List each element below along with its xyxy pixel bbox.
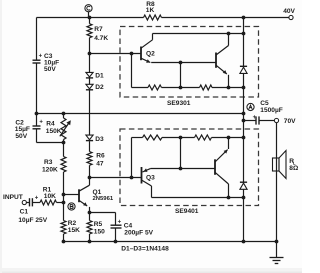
- wire Q2 emitter to output base: [151, 62, 216, 64]
- svg-text:2N5961: 2N5961: [93, 196, 114, 202]
- resistor R6: [87, 141, 92, 177]
- wire internal: [162, 87, 200, 89]
- svg-text:Q3: Q3: [146, 175, 155, 182]
- svg-text:150: 150: [94, 229, 105, 236]
- label Q2: [146, 50, 155, 57]
- label SE9401: [175, 208, 199, 215]
- terminal 40V: [283, 8, 295, 20]
- wire emitter to C4: [90, 212, 116, 214]
- node Q3 base divider: [130, 176, 134, 180]
- node divider mid 9401: [179, 136, 183, 140]
- wire D2 to D3: [89, 90, 91, 135]
- speaker RL: [273, 151, 299, 179]
- transistor Q3: [142, 167, 152, 198]
- svg-text:10µF 25V: 10µF 25V: [18, 217, 47, 224]
- svg-text:+: +: [35, 196, 39, 202]
- svg-text:120K: 120K: [42, 166, 58, 173]
- wire rail to SE9401: [243, 121, 245, 138]
- transistor U1 output: [216, 34, 229, 88]
- resistor R1: [40, 187, 64, 206]
- wire top internal: [153, 33, 244, 35]
- resistor R3: [42, 143, 66, 195]
- wire C2 to mid rail: [37, 129, 64, 143]
- label SE9301: [167, 100, 191, 107]
- svg-text:R7: R7: [94, 26, 103, 33]
- node rail output top: [242, 86, 246, 90]
- resistor internal top-1: [148, 85, 162, 90]
- node rail bottom: [242, 240, 246, 244]
- wire Q2 base: [90, 53, 142, 55]
- node C: [85, 5, 92, 18]
- node A: [247, 103, 254, 110]
- terminal 70V: [274, 118, 296, 125]
- node divider mid bottom: [179, 86, 183, 90]
- block SE9401 box: [120, 129, 259, 206]
- svg-text:SE9301: SE9301: [167, 100, 191, 107]
- node R4 top: [62, 112, 66, 116]
- diode catch bottom: [240, 138, 247, 198]
- wire internal to rail: [212, 87, 244, 89]
- node Q1 collector: [88, 176, 92, 180]
- svg-text:1500µF: 1500µF: [260, 107, 283, 114]
- svg-text:Q2: Q2: [146, 50, 155, 57]
- wire divider rise: [131, 138, 133, 178]
- labels R6: [96, 153, 105, 168]
- svg-text:D1: D1: [95, 72, 104, 79]
- wire Q1 collector to Q3 base: [90, 177, 142, 179]
- node divider mid drop 9401: [179, 167, 183, 171]
- resistor R2: [61, 203, 80, 242]
- wire top supply rail: [37, 17, 290, 19]
- node C5 junction: [242, 119, 246, 123]
- wire feedback: [37, 113, 244, 115]
- resistor R8: [144, 1, 162, 20]
- svg-text:C1: C1: [20, 208, 29, 215]
- wire internal 9401 to rail: [212, 137, 244, 139]
- diode catch top: [240, 33, 247, 88]
- node Q2 base divider: [130, 52, 134, 56]
- node divider mid top: [179, 61, 183, 65]
- svg-text:R4: R4: [46, 120, 55, 127]
- svg-text:1K: 1K: [146, 7, 155, 14]
- transistor Q1: [79, 178, 114, 213]
- node rail 9401 bottom: [242, 196, 246, 200]
- resistor internal bot-1: [143, 135, 163, 140]
- transistor Q2: [141, 40, 153, 63]
- node R5 bottom: [88, 240, 92, 244]
- capacitor C3: [33, 53, 60, 114]
- wire left rail upper: [36, 18, 38, 61]
- node C4 bottom: [114, 240, 118, 244]
- terminal input: [22, 200, 26, 204]
- wire bottom internal left: [132, 87, 149, 89]
- wire Q3 top arm to output base: [151, 168, 215, 170]
- wire divider drop: [131, 54, 133, 88]
- svg-text:INPUT: INPUT: [3, 194, 23, 201]
- node output collector top: [227, 32, 231, 36]
- svg-text:47: 47: [96, 161, 104, 168]
- svg-text:D3: D3: [95, 136, 104, 143]
- wire rail from top: [243, 18, 245, 34]
- svg-text:150K: 150K: [46, 128, 62, 135]
- svg-text:8Ω: 8Ω: [289, 165, 299, 172]
- diode D2: [86, 79, 104, 92]
- resistor R7: [87, 18, 108, 54]
- svg-text:+: +: [39, 120, 43, 126]
- svg-text:Q1: Q1: [93, 189, 102, 196]
- wire left rail lower: [36, 114, 38, 127]
- node rail 40V: [242, 16, 246, 20]
- label INPUT: [3, 194, 23, 201]
- wire rail to ground: [243, 198, 245, 242]
- node Q1 emitter: [88, 211, 92, 215]
- node R1 junction: [62, 201, 66, 205]
- node output arm 9401 bottom: [227, 196, 231, 200]
- transistor U2 output: [215, 138, 229, 198]
- capacitor C5: [244, 100, 283, 124]
- svg-text:R6: R6: [96, 153, 105, 160]
- node top bias junction: [88, 16, 92, 20]
- resistor R5: [87, 213, 105, 242]
- svg-text:R5: R5: [94, 221, 103, 228]
- node R2 bottom: [62, 240, 66, 244]
- svg-text:D2: D2: [95, 84, 104, 91]
- svg-text:40V: 40V: [283, 8, 295, 15]
- label Q3: [146, 175, 155, 182]
- resistor internal top-2: [200, 85, 213, 90]
- svg-text:10K: 10K: [44, 193, 56, 200]
- node rail 9401 top: [242, 136, 246, 140]
- node output emitter bottom: [227, 86, 231, 90]
- wire bottom ground: [64, 241, 277, 243]
- wire rail output to C5: [243, 88, 245, 121]
- svg-text:+: +: [118, 220, 122, 226]
- block SE9301 box: [120, 27, 259, 98]
- node Q2 base junction: [88, 52, 92, 56]
- node R4 bottom: [62, 141, 66, 145]
- wire internal 9401: [162, 137, 195, 139]
- resistor R4: [46, 114, 71, 143]
- node B: [68, 203, 75, 210]
- node speaker bottom: [275, 240, 279, 244]
- wire Q1 base: [64, 194, 80, 196]
- svg-text:15K: 15K: [68, 227, 80, 234]
- svg-text:50V: 50V: [44, 66, 56, 73]
- diode D3: [86, 135, 104, 143]
- svg-text:+: +: [39, 54, 43, 60]
- svg-text:D1–D3=1N4148: D1–D3=1N4148: [121, 246, 169, 253]
- node junction left rail / feedback: [35, 112, 39, 116]
- svg-text:200µF 5V: 200µF 5V: [124, 229, 153, 236]
- svg-text:50V: 50V: [15, 133, 27, 140]
- wire divider mid rise 9401: [180, 138, 182, 169]
- svg-text:+: +: [253, 115, 257, 121]
- capacitor C1: [18, 196, 47, 224]
- label D1-D3: [121, 246, 169, 253]
- diode D1: [86, 54, 104, 80]
- wire speaker drop: [276, 123, 278, 242]
- svg-text:4.7K: 4.7K: [94, 35, 108, 42]
- wire bottom internal 9401: [152, 197, 244, 199]
- svg-text:SE9401: SE9401: [175, 208, 199, 215]
- wire top internal 9401 left: [132, 137, 143, 139]
- wire divider mid drop: [180, 63, 182, 88]
- svg-text:R3: R3: [44, 159, 53, 166]
- capacitor C2: [15, 120, 44, 140]
- node rail top internal: [242, 32, 246, 36]
- capacitor C4: [111, 213, 154, 242]
- ground: [270, 242, 284, 264]
- wire Q2 collector up: [152, 34, 154, 40]
- node feedback right: [242, 112, 246, 116]
- resistor internal bot-2: [195, 135, 212, 140]
- svg-text:70V: 70V: [284, 118, 296, 125]
- wire rail to R1 node: [63, 195, 65, 203]
- node Q1 base junction: [62, 193, 66, 197]
- node output arm 9401 top: [227, 136, 231, 140]
